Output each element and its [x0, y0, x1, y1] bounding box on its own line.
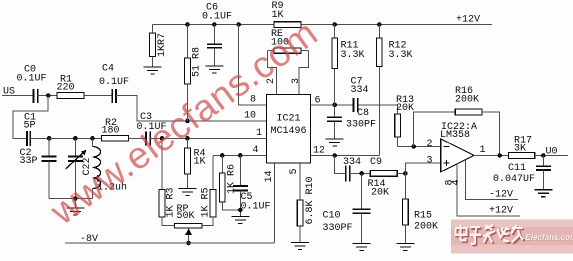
- svg-text:1K R3: 1K R3: [166, 187, 177, 217]
- svg-text:IC21: IC21: [277, 114, 301, 125]
- resistor R4 1K: [185, 138, 206, 188]
- wire rail down to IC pin 8: [239, 25, 267, 105]
- resistor R13 20K: [395, 95, 441, 147]
- watermark www.elecfans.com: [42, 11, 325, 233]
- svg-text:Elecfans.com: Elecfans.com: [526, 233, 573, 242]
- wire IC pin 14 to -8V: [264, 163, 275, 243]
- svg-text:-12V: -12V: [489, 190, 513, 201]
- pin 4 label: [253, 145, 259, 156]
- pin 12 label: [313, 146, 325, 157]
- junction R12 top: [377, 22, 382, 27]
- svg-text:330PF: 330PF: [323, 223, 353, 234]
- resistor R7 1K: [150, 25, 168, 68]
- resistor R15 200K: [403, 173, 438, 243]
- wire op-amp output: [474, 155, 508, 157]
- svg-text:12: 12: [313, 146, 325, 157]
- svg-text:5: 5: [289, 168, 300, 174]
- wire node A down to C1 branch: [13, 96, 48, 139]
- resistor RE 100 between pins 2 and 3: [267, 29, 308, 53]
- svg-text:3K: 3K: [514, 144, 526, 155]
- ground C10: [353, 243, 371, 250]
- svg-text:1K R6: 1K R6: [226, 164, 237, 194]
- ground R4: [179, 189, 197, 196]
- junction R3 top: [160, 136, 165, 141]
- wire C4 down to pin10 carrier feed: [116, 96, 267, 121]
- resistor R9 1K: [272, 1, 302, 27]
- wire tank top bus: [49, 137, 101, 139]
- capacitor C2 33P: [20, 138, 57, 198]
- svg-text:1K: 1K: [272, 10, 284, 21]
- junction C5 top: [238, 153, 243, 158]
- pin 6 label: [315, 96, 321, 107]
- resistor R2 180: [102, 118, 129, 141]
- svg-text:C4: C4: [102, 64, 114, 75]
- junction R6 C5 bottom: [238, 208, 243, 213]
- svg-text:14: 14: [264, 170, 275, 182]
- svg-text:51 R8: 51 R8: [192, 47, 203, 77]
- svg-text:0.1UF: 0.1UF: [241, 202, 271, 213]
- junction node A: [46, 93, 51, 98]
- svg-text:3.3K: 3.3K: [389, 50, 413, 61]
- svg-text:MC1496: MC1496: [271, 126, 307, 137]
- junction C2 top: [47, 136, 52, 141]
- ground C6: [205, 66, 223, 73]
- svg-text:10: 10: [244, 111, 256, 122]
- junction R4 top: [185, 136, 190, 141]
- potentiometer RP 50K: [174, 204, 202, 243]
- capacitor C5 0.1UF: [233, 155, 271, 216]
- node US input label: [3, 87, 15, 98]
- svg-text:200K: 200K: [414, 222, 438, 233]
- wire C0 to R1: [38, 95, 57, 97]
- op-amp IC22:A LM358: [427, 122, 486, 172]
- svg-text:0.047UF: 0.047UF: [493, 174, 535, 185]
- ground R10: [291, 243, 309, 250]
- svg-text:334: 334: [343, 157, 361, 168]
- wire IC pin 4: [213, 154, 267, 156]
- capacitor C11 0.047UF: [493, 156, 551, 190]
- resistor R16 200K feedback: [414, 86, 500, 156]
- ground R15: [396, 243, 414, 250]
- resistor R1 220: [57, 75, 85, 99]
- pin 8 label: [250, 95, 256, 106]
- capacitor C3 0.1UF: [137, 112, 167, 145]
- svg-text:R15: R15: [414, 211, 432, 222]
- wire tank bottom bus: [49, 198, 92, 200]
- resistor R17 3K: [509, 136, 569, 159]
- svg-text:3.3K: 3.3K: [341, 50, 365, 61]
- svg-text:0.1UF: 0.1UF: [17, 74, 47, 85]
- svg-text:U0: U0: [546, 147, 558, 158]
- svg-text:33P: 33P: [20, 156, 38, 167]
- resistor R3 1K: [159, 138, 176, 225]
- svg-text:5P: 5P: [24, 121, 36, 132]
- svg-text:0.1UF: 0.1UF: [99, 77, 129, 88]
- resistor R5 1K: [200, 155, 215, 225]
- svg-text:20K: 20K: [371, 188, 389, 199]
- ground C8: [326, 139, 344, 146]
- svg-text:1: 1: [480, 145, 486, 156]
- resistor R11 3.3K: [332, 25, 365, 105]
- junction C22 top: [73, 136, 78, 141]
- svg-text:3: 3: [427, 156, 433, 167]
- junction RP wiper on -8V rail: [186, 241, 191, 246]
- svg-text:C10: C10: [323, 211, 341, 222]
- svg-text:200K: 200K: [455, 95, 479, 106]
- junction pin8 feed top: [236, 22, 241, 27]
- wire R2 to C3: [128, 137, 146, 139]
- capacitor C6 0.1UF: [202, 3, 232, 67]
- junction L top: [90, 136, 95, 141]
- junction C6 top: [212, 22, 217, 27]
- svg-text:1K: 1K: [194, 157, 206, 168]
- ground C11: [534, 190, 552, 197]
- svg-text:4: 4: [253, 145, 259, 156]
- svg-text:20K: 20K: [396, 103, 414, 114]
- svg-text:C9: C9: [370, 157, 382, 168]
- svg-text:4: 4: [451, 179, 462, 185]
- svg-text:180: 180: [102, 126, 120, 137]
- capacitor C0 0.1UF: [17, 65, 47, 104]
- junction R16 right at output: [497, 153, 502, 158]
- svg-text:C11: C11: [508, 163, 526, 174]
- svg-text:1: 1: [256, 128, 262, 139]
- pin 10 label: [244, 111, 256, 122]
- pin 1 label: [256, 128, 262, 139]
- svg-text:0.1UF: 0.1UF: [202, 12, 232, 23]
- ground tank: [66, 199, 84, 215]
- op-amp IC21 MC1496 box: [267, 95, 311, 164]
- svg-text:330PF: 330PF: [346, 120, 376, 131]
- ground R7: [144, 67, 162, 74]
- wire op-amp pin 8 to +12V: [445, 164, 520, 217]
- junction C11 top: [541, 153, 546, 158]
- svg-text:6.8K R10: 6.8K R10: [305, 176, 316, 224]
- capacitor C9 334: [335, 156, 382, 182]
- svg-text:1KR7: 1KR7: [157, 33, 168, 57]
- capacitor C7 334: [351, 77, 369, 112]
- junction C10 top: [359, 171, 364, 176]
- capacitor C1 5P: [24, 113, 37, 147]
- svg-text:2: 2: [427, 139, 433, 150]
- svg-text:+12V: +12V: [456, 15, 480, 26]
- node -8V rail: [65, 234, 274, 245]
- wire RE left leg to pin 2: [266, 51, 277, 95]
- junction R8 top: [185, 22, 190, 27]
- resistor R6 1K: [220, 155, 241, 210]
- wire IC pin 12: [311, 155, 380, 157]
- svg-text:C8: C8: [357, 108, 369, 119]
- wire R1 to C4: [84, 95, 112, 97]
- junction R6 top: [220, 153, 225, 158]
- capacitor C8 330PF: [327, 105, 376, 139]
- junction R14 right R15 top: [403, 171, 408, 176]
- resistor R12 3.3K: [377, 25, 413, 156]
- svg-text:LM358: LM358: [440, 130, 470, 141]
- svg-text:3: 3: [291, 78, 302, 84]
- wire +12V top rail: [153, 15, 493, 26]
- wire C3 to IC pin 1: [150, 137, 266, 139]
- variable capacitor C22: [66, 138, 94, 198]
- resistor R10 6.8K on pin 5: [289, 163, 316, 242]
- inductor L 1.2uh: [93, 138, 128, 198]
- svg-text:334: 334: [351, 85, 369, 96]
- svg-text:1K R5: 1K R5: [200, 187, 211, 217]
- junction R11 top: [332, 22, 337, 27]
- capacitor C10 330PF: [323, 173, 371, 243]
- svg-text:+12V: +12V: [489, 206, 513, 217]
- wire plus input from R14 node: [405, 163, 440, 174]
- wire US to C0: [2, 95, 34, 97]
- junction tank bottom: [73, 196, 78, 201]
- resistor R14 20K: [368, 171, 406, 199]
- junction pin 12 node: [332, 153, 337, 158]
- node U0 output label: [546, 147, 558, 158]
- capacitor C4 0.1UF: [99, 64, 129, 104]
- ground R6 C5: [231, 217, 249, 224]
- junction R16 loop at minus input: [411, 144, 416, 149]
- svg-text:220: 220: [57, 83, 75, 94]
- wire op-amp pin 4 to -12V: [451, 159, 518, 200]
- watermark elecfans badge: [451, 220, 573, 254]
- wire IC pin 6: [311, 104, 398, 106]
- svg-text:50K: 50K: [177, 211, 195, 222]
- wire RE right leg to pin 3: [291, 51, 309, 95]
- junction R8 bottom on pin10 wire: [185, 119, 190, 124]
- resistor R8 51: [185, 25, 203, 121]
- wire C1 to tank bus: [30, 137, 49, 139]
- junction R11 bottom C8 top: [332, 103, 337, 108]
